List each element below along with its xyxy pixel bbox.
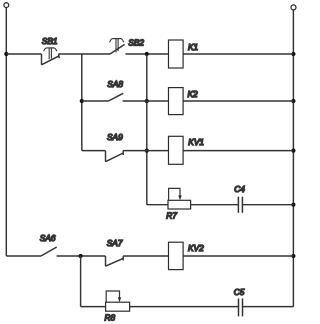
- switch SA9: [106, 151, 124, 162]
- node x146 row2 junction: [145, 99, 149, 103]
- svg-text:SA9: SA9: [107, 132, 123, 142]
- node left rail row1 junction: [4, 52, 8, 56]
- relay coil KV1: [169, 136, 184, 164]
- svg-text:C5: C5: [234, 287, 245, 297]
- wire right rail: [292, 10, 294, 307]
- node x81 row2 junction: [80, 99, 84, 103]
- wire vertical x146 row1 to R7 row: [146, 54, 148, 205]
- wire R7 to C4: [191, 204, 239, 206]
- node row1 x146 junction: [145, 52, 149, 56]
- pushbutton SB2: [110, 39, 125, 54]
- node x81 row4 junction: [79, 254, 83, 258]
- wire K2 to right rail: [183, 100, 293, 102]
- switch SA6: [41, 247, 57, 256]
- node right rail row3: [291, 149, 295, 153]
- svg-text:SB1: SB1: [42, 36, 58, 46]
- wire SA9 to KV1: [123, 150, 168, 152]
- svg-text:KV1: KV1: [188, 137, 204, 147]
- wire SB1 to SB2: [58, 53, 110, 55]
- wire left rail: [5, 8, 7, 256]
- relay coil KV2: [169, 242, 184, 269]
- svg-text:R7: R7: [166, 210, 177, 220]
- wire row2 left segment: [82, 100, 109, 102]
- svg-text:KV2: KV2: [188, 243, 204, 253]
- svg-text:K1: K1: [188, 42, 198, 52]
- relay coil K1: [169, 40, 184, 68]
- wire R7 row left segment: [147, 204, 168, 206]
- svg-text:K2: K2: [188, 89, 199, 99]
- wire row4 left segment: [6, 255, 41, 257]
- node right rail C4 row: [291, 203, 295, 207]
- svg-text:SA8: SA8: [107, 79, 123, 89]
- svg-text:SA6: SA6: [40, 233, 56, 243]
- wire KV2 to right rail: [183, 255, 293, 257]
- wire K1 to right rail: [183, 53, 293, 55]
- wire vertical x81 row4 to R8 row: [80, 256, 82, 307]
- wire vertical x81 row1 to row3: [81, 54, 83, 151]
- wire SA7 to KV2: [123, 255, 168, 257]
- wire KV1 to right rail: [183, 150, 293, 152]
- svg-text:R8: R8: [105, 312, 116, 322]
- relay coil K2: [169, 88, 184, 115]
- wire row1 left segment: [6, 53, 41, 55]
- node right rail KV2 row: [291, 254, 295, 258]
- wire R8 row left segment: [81, 306, 106, 308]
- wire R8 to C5: [130, 306, 239, 308]
- wire C5 to right rail: [243, 306, 294, 308]
- wire row3 left segment: [82, 150, 106, 152]
- wire SB2 to K1: [126, 53, 169, 55]
- terminal left: [4, 3, 9, 8]
- node right rail row1: [291, 52, 295, 56]
- pushbutton SB1: [42, 48, 60, 65]
- capacitor C4: [238, 197, 242, 213]
- terminal right: [291, 5, 296, 10]
- svg-text:C4: C4: [234, 184, 245, 194]
- node right rail row2: [291, 99, 295, 103]
- wire SA8 to K2: [123, 100, 169, 102]
- wire C4 to right rail: [242, 204, 293, 206]
- svg-text:SA7: SA7: [107, 238, 123, 248]
- wire SA6 to SA7: [57, 255, 106, 257]
- switch SA8: [109, 93, 124, 101]
- node x146 row3 junction: [145, 149, 149, 153]
- capacitor C5: [239, 298, 243, 316]
- svg-text:SB2: SB2: [128, 37, 144, 47]
- resistor R7: [168, 188, 191, 209]
- resistor R8: [106, 291, 130, 311]
- switch SA7: [106, 256, 124, 266]
